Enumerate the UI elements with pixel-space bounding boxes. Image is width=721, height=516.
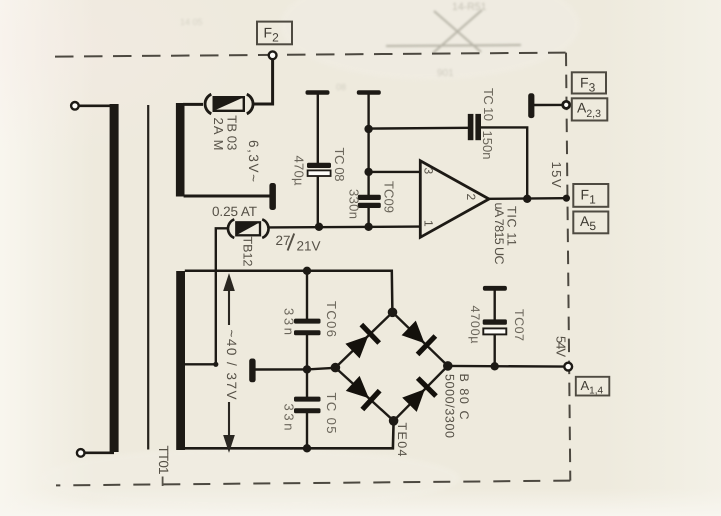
TC07 lead wires bbox=[494, 290, 496, 366]
svg-text:TC 08: TC 08 bbox=[332, 148, 347, 182]
junction dot TC09 top bbox=[364, 125, 372, 133]
wire fuse TB03 to F2 corner bbox=[253, 59, 273, 104]
junction dot TC07 bbox=[491, 362, 499, 370]
secondary winding bar (top, 6.3V) bbox=[176, 103, 185, 197]
wire TB12 right to regulator input rail bbox=[269, 225, 421, 228]
svg-text:54V: 54V bbox=[554, 336, 569, 357]
fuse TB12 (0.25 AT) bbox=[228, 219, 269, 238]
svg-text:TC09: TC09 bbox=[382, 181, 397, 213]
svg-text:0.25 AT: 0.25 AT bbox=[212, 204, 257, 219]
output wire to F1 bbox=[489, 197, 563, 200]
transformer core line bbox=[147, 105, 149, 450]
wire winding bottom to bridge bottom bbox=[185, 421, 394, 449]
terminal F1 (filled) bbox=[563, 195, 570, 202]
primary top terminal wire bbox=[78, 105, 111, 108]
diode D3 (left-bottom arm) bbox=[346, 376, 369, 398]
svg-text:33n: 33n bbox=[281, 308, 296, 335]
svg-text:TC06: TC06 bbox=[324, 301, 339, 337]
junction dot TC09 bottom bbox=[364, 223, 372, 231]
TC07 plates (electrolytic) bbox=[483, 319, 507, 324]
capacitor TC09 330n top tab bbox=[357, 90, 381, 95]
svg-text:470µ: 470µ bbox=[292, 156, 307, 187]
wire TB12 left down to winding tap bbox=[184, 228, 228, 364]
svg-text:15V: 15V bbox=[549, 162, 564, 188]
svg-text:150n: 150n bbox=[480, 131, 495, 160]
wire bridge + to A1,4 bbox=[448, 365, 565, 368]
svg-text:21V: 21V bbox=[297, 239, 321, 254]
capacitor TC10 150n plates bbox=[468, 114, 474, 140]
wire TC10 to output corner bbox=[481, 127, 528, 199]
A1,4 box bbox=[576, 377, 610, 396]
F2 box bbox=[257, 22, 292, 45]
diode D1 (left-top arm) bbox=[345, 336, 368, 359]
capacitor TC08 470u top tab bbox=[306, 90, 330, 95]
svg-text:14 05: 14 05 bbox=[180, 17, 203, 27]
svg-text:6,3V~: 6,3V~ bbox=[246, 140, 261, 182]
wire winding to fuse TB03 bbox=[183, 103, 203, 106]
svg-text:33n: 33n bbox=[281, 404, 296, 431]
svg-text:2: 2 bbox=[464, 194, 478, 201]
TC06 plates bbox=[294, 319, 321, 324]
bridge rectifier B80C diamond bbox=[335, 312, 447, 421]
primary bottom terminal circle bbox=[77, 449, 85, 457]
junction dot TC06/TC05 bbox=[303, 365, 311, 373]
svg-text:330n: 330n bbox=[347, 189, 362, 219]
svg-text:5000/3300: 5000/3300 bbox=[442, 374, 456, 438]
svg-text:TC 05: TC 05 bbox=[324, 393, 339, 434]
terminal F2 circle bbox=[269, 51, 277, 59]
junction dot TC09 mid bbox=[364, 168, 372, 176]
TC05 plates bbox=[294, 397, 321, 402]
svg-text:3: 3 bbox=[422, 168, 436, 175]
fuse TB03 (2A M) bbox=[205, 94, 253, 114]
svg-text:4700µ: 4700µ bbox=[468, 306, 482, 344]
wire tab to A2,3 terminal bbox=[534, 104, 563, 106]
secondary winding bar (bottom, 40V) bbox=[176, 271, 185, 450]
TC06 lead wires bbox=[306, 271, 308, 370]
primary top terminal circle bbox=[71, 102, 79, 110]
A2,3 box bbox=[572, 98, 608, 120]
svg-text:1: 1 bbox=[422, 220, 436, 227]
junction dot output bbox=[523, 195, 531, 203]
wire winding top to bridge top bbox=[185, 271, 393, 313]
junction dot TC08 / 27V rail bbox=[315, 223, 323, 231]
dashed enclosure border top bbox=[55, 53, 566, 57]
TC08 lead wires bbox=[317, 94, 319, 227]
dashed enclosure border right bbox=[566, 53, 570, 481]
F1 box bbox=[573, 184, 608, 207]
svg-text:TIC 11: TIC 11 bbox=[505, 206, 519, 246]
TC09 lead wires bbox=[367, 94, 369, 227]
tap corner dot bbox=[213, 362, 218, 367]
svg-text:~40 / 37V: ~40 / 37V bbox=[224, 330, 239, 400]
voltage arrow ~40/37V bbox=[225, 277, 234, 450]
svg-text:TE04: TE04 bbox=[395, 423, 409, 457]
bridge vertex dots bbox=[388, 308, 398, 318]
wire winding bottom to terminal tab bbox=[184, 195, 270, 198]
A5 box bbox=[573, 212, 608, 234]
ghost bleed-through X mark bbox=[386, 10, 521, 53]
junction dot TC06 top bbox=[303, 267, 311, 275]
svg-text:TT01: TT01 bbox=[156, 446, 171, 475]
transformer TT01 primary winding bar bbox=[110, 104, 119, 452]
primary bottom terminal wire bbox=[84, 451, 114, 454]
svg-text:TC 10: TC 10 bbox=[481, 88, 496, 121]
terminal A2,3 circle bbox=[563, 101, 570, 108]
TT01 leader tick bbox=[162, 477, 164, 487]
op-amp / regulator U-TIC11 triangle bbox=[420, 161, 489, 238]
F3 box bbox=[572, 72, 606, 93]
TC05 lead wires bbox=[306, 369, 308, 448]
wire TC09 to regulator pin 3 bbox=[369, 171, 421, 173]
wire TC09 junction to TC10 bbox=[369, 127, 468, 130]
connector tab terminal (6.3V return) bbox=[269, 183, 276, 210]
svg-text:08: 08 bbox=[336, 82, 346, 92]
svg-text:901: 901 bbox=[437, 68, 454, 79]
diode D4 (bottom-right arm) bbox=[402, 389, 425, 412]
capacitor TC07 4700u top tab bbox=[483, 286, 507, 291]
diode D2 (top-right arm) bbox=[402, 321, 425, 344]
connector tab A2,3 bbox=[528, 93, 534, 118]
TC08 plates (electrolytic) bbox=[307, 163, 331, 168]
connector tab (0V rail) bbox=[249, 359, 255, 383]
dashed enclosure border bottom bbox=[56, 481, 570, 486]
svg-text:27: 27 bbox=[276, 233, 291, 248]
svg-text:14-R51: 14-R51 bbox=[452, 1, 487, 13]
wire tab to bridge left bbox=[256, 368, 336, 370]
svg-text:B 80 C: B 80 C bbox=[457, 374, 471, 420]
junction dot TC05 bottom bbox=[303, 444, 311, 452]
svg-text:TC07: TC07 bbox=[512, 309, 526, 341]
terminal A1,4 circle bbox=[564, 363, 572, 371]
svg-text:uA 7815 UC: uA 7815 UC bbox=[492, 203, 506, 265]
svg-text:TB12: TB12 bbox=[241, 237, 255, 267]
svg-text:2A M: 2A M bbox=[211, 118, 226, 151]
TC09 plates bbox=[358, 195, 381, 200]
